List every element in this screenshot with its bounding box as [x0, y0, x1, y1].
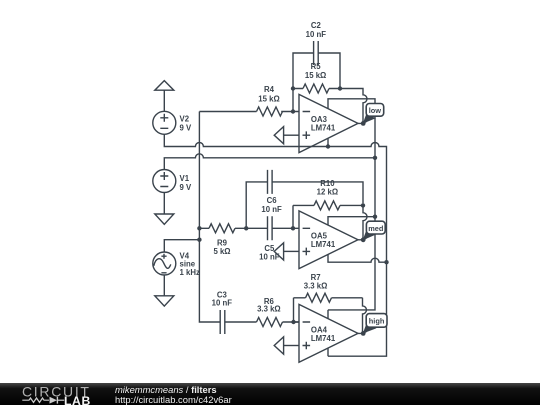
svg-text:R5: R5: [311, 62, 322, 71]
svg-text:LM741: LM741: [311, 240, 336, 249]
svg-text:V1: V1: [180, 174, 190, 183]
svg-text:C6: C6: [267, 196, 278, 205]
svg-text:5 kΩ: 5 kΩ: [213, 247, 230, 256]
svg-text:3.3 kΩ: 3.3 kΩ: [257, 305, 281, 314]
svg-text:high: high: [369, 317, 385, 326]
svg-text:12 kΩ: 12 kΩ: [317, 187, 338, 196]
svg-text:10 nF: 10 nF: [261, 205, 282, 214]
svg-text:http://circuitlab.com/c42v6ar: http://circuitlab.com/c42v6ar: [115, 394, 232, 405]
svg-text:R4: R4: [264, 85, 275, 94]
svg-text:9 V: 9 V: [180, 124, 193, 133]
svg-text:LM741: LM741: [311, 334, 336, 343]
svg-text:9 V: 9 V: [180, 183, 193, 192]
svg-text:med: med: [368, 224, 384, 233]
svg-text:LM741: LM741: [311, 124, 336, 133]
svg-text:C2: C2: [311, 21, 322, 30]
svg-text:10 nF: 10 nF: [212, 299, 233, 308]
svg-text:V2: V2: [180, 115, 190, 124]
svg-text:LAB: LAB: [64, 394, 91, 405]
svg-text:10 nF: 10 nF: [259, 252, 280, 261]
svg-text:1 kHz: 1 kHz: [180, 268, 200, 277]
svg-text:15 kΩ: 15 kΩ: [258, 95, 279, 104]
svg-text:3.3 kΩ: 3.3 kΩ: [304, 281, 328, 290]
svg-text:low: low: [369, 106, 382, 115]
svg-text:15 kΩ: 15 kΩ: [305, 71, 326, 80]
svg-text:10 nF: 10 nF: [306, 30, 327, 39]
